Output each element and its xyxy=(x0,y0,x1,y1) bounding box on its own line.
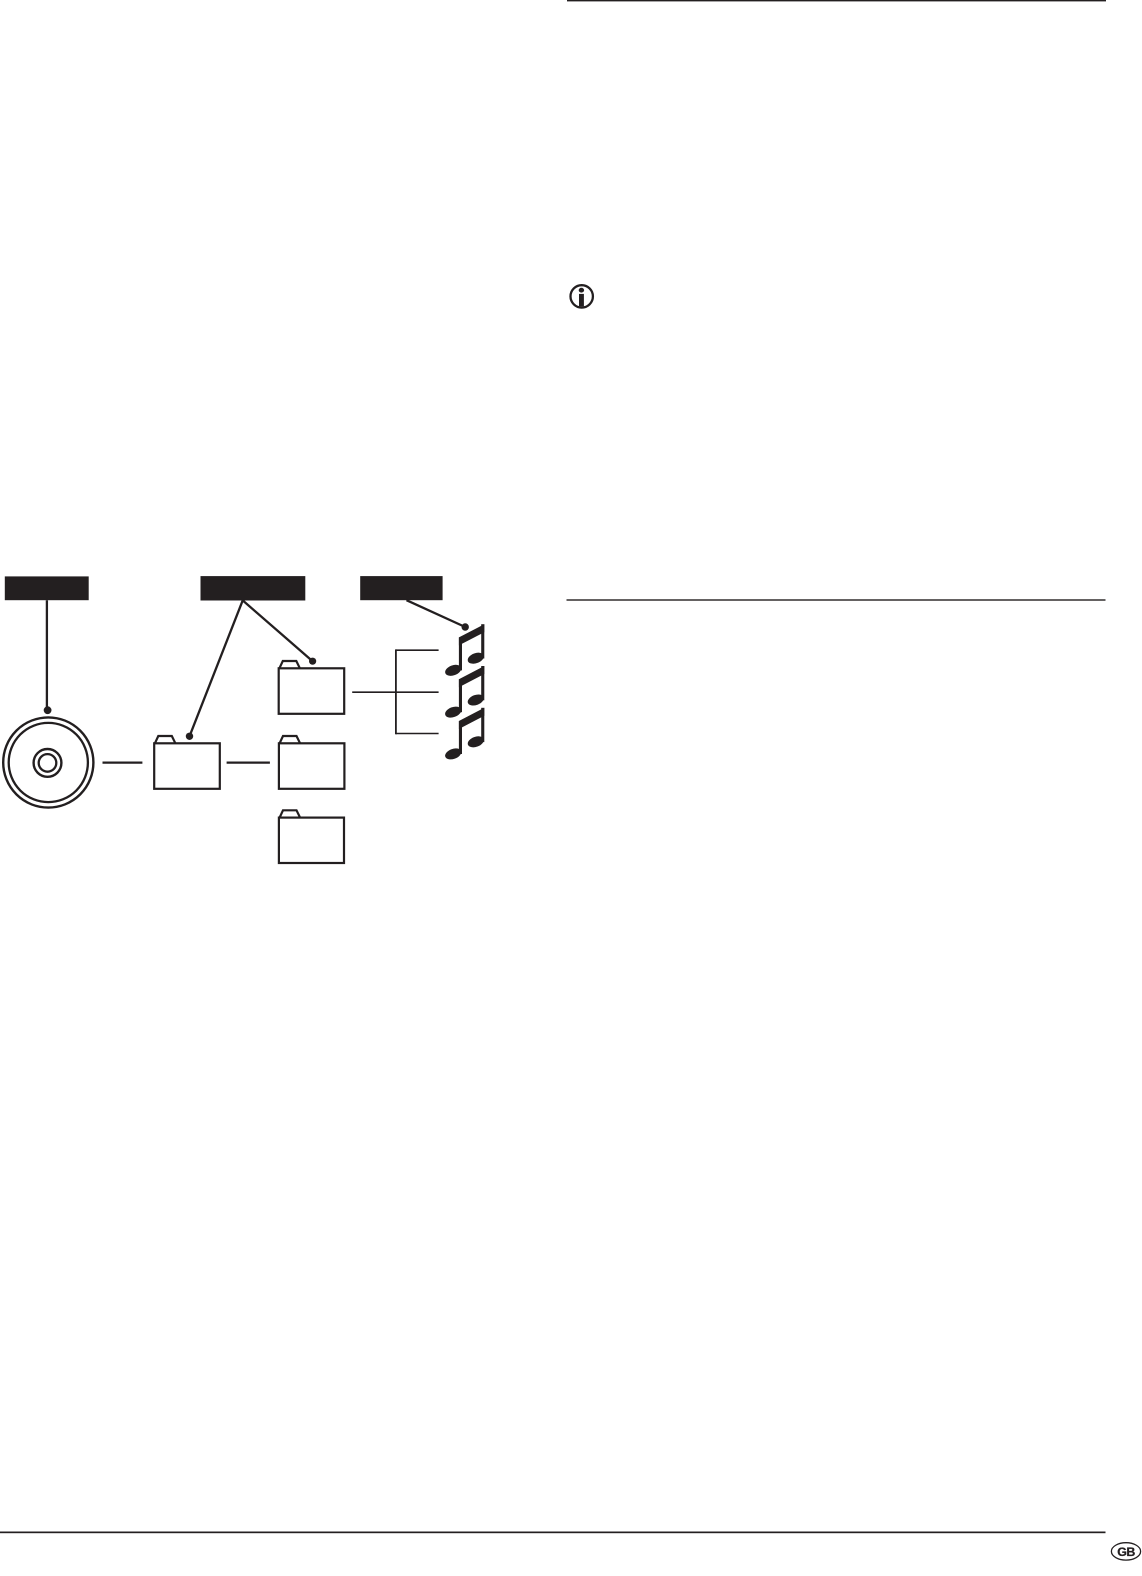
folder B xyxy=(279,736,345,789)
junction dot on note xyxy=(462,623,469,630)
footer rule xyxy=(0,1532,1106,1534)
junction dot on root folder xyxy=(186,733,193,740)
CD hub inner circle xyxy=(39,754,57,772)
info icon i-stem xyxy=(579,294,584,307)
info icon circle xyxy=(571,285,593,307)
label box 2 (folder label) xyxy=(201,576,306,600)
CD disc inner rim circle xyxy=(9,723,88,802)
junction dot on folder A xyxy=(309,658,316,665)
root folder xyxy=(154,736,220,789)
music note 2 xyxy=(444,666,486,720)
CD disc outer circle xyxy=(3,717,93,807)
svg-text:GB: GB xyxy=(1117,1545,1135,1559)
CD hub outer circle xyxy=(34,749,62,777)
music note 3 xyxy=(444,708,486,762)
wire folder A to bracket xyxy=(352,691,438,693)
folder C xyxy=(279,810,344,863)
music note 1 xyxy=(444,624,486,678)
wire label2 to root folder xyxy=(190,600,243,736)
info icon i-dot xyxy=(579,288,584,293)
bracket bottom branch xyxy=(396,733,439,735)
GB badge ellipse xyxy=(1111,1543,1140,1560)
junction dot on disc xyxy=(44,706,52,714)
wire disc to root folder xyxy=(103,761,143,763)
top rule (right column header) xyxy=(567,0,1106,1)
wire root folder to folder B xyxy=(227,761,270,763)
wire label1 to disc xyxy=(46,600,48,707)
wire label2 to folder A xyxy=(243,600,313,661)
bracket top branch xyxy=(396,649,439,651)
bracket vertical xyxy=(395,649,397,734)
label box 1 (disc label) xyxy=(5,576,89,600)
label box 3 (file label) xyxy=(360,576,442,600)
wire label3 to note xyxy=(407,600,466,627)
folder A xyxy=(279,661,345,714)
section rule (right column) xyxy=(567,599,1106,600)
